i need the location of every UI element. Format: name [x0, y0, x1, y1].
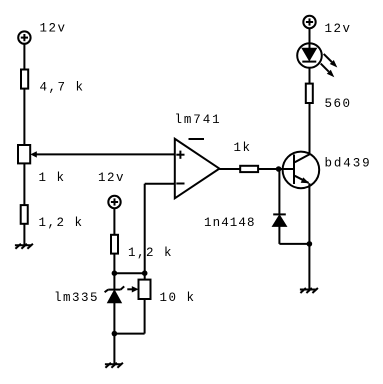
wire bottom junction horizontal	[114, 333, 144, 335]
svg-text:4,7 k: 4,7 k	[40, 81, 85, 95]
svg-text:bd439: bd439	[325, 157, 372, 171]
svg-text:10 k: 10 k	[160, 291, 196, 305]
svg-text:12v: 12v	[40, 22, 67, 36]
wire P2 bottom to junction	[144, 299, 146, 334]
wire zener to bottom junction	[113, 303, 115, 365]
svg-text:1k: 1k	[234, 141, 252, 155]
wire R1 to potentiometer P1	[23, 89, 25, 146]
resistor R1 4,7k	[21, 70, 28, 89]
wire - input down to junction	[144, 184, 146, 280]
resistor R3 1,2k (middle)	[111, 235, 118, 254]
wire R4 to transistor base	[258, 168, 294, 170]
resistor R2 1,2k	[21, 205, 28, 224]
wire wiper to op-amp + input	[36, 153, 175, 155]
LED arrow 2	[321, 64, 335, 78]
svg-text:1,2 k: 1,2 k	[39, 216, 84, 230]
wire P1 to R2	[23, 163, 25, 205]
supply +12v V3 (middle)	[108, 196, 120, 208]
wire R2 to ground	[23, 224, 25, 245]
node dot (emitter junction)	[307, 241, 313, 247]
supply +12v V2 (top right)	[303, 16, 315, 28]
wire V1 to R1	[23, 44, 25, 71]
op-amp U1 lm741	[175, 139, 220, 199]
svg-text:1,2 k: 1,2 k	[128, 246, 173, 260]
wire base node down to diode	[278, 169, 280, 214]
wire collector up to R5	[309, 104, 311, 155]
op-amp minus bar above	[189, 138, 205, 140]
wire diode down	[278, 226, 280, 244]
potentiometer P1 wiper arrow	[30, 151, 37, 157]
potentiometer P2 10k body	[139, 280, 151, 299]
LED arrow 1	[324, 54, 338, 68]
wire V2 to LED	[309, 28, 311, 48]
op-amp + input symbol	[176, 151, 184, 159]
junction wire to pot P2	[114, 272, 144, 274]
wire R5 to LED	[309, 62, 311, 84]
resistor R5 560	[306, 84, 313, 103]
wire emitter down to ground	[308, 183, 310, 289]
wire V3 to R3	[113, 208, 115, 235]
svg-text:lm335: lm335	[54, 291, 99, 305]
svg-text:560: 560	[325, 97, 352, 111]
wire op-amp - input	[145, 183, 175, 185]
svg-text:12v: 12v	[325, 22, 352, 36]
node dot (R3-branch junction)	[112, 270, 118, 276]
ground (right)	[300, 288, 318, 293]
resistor R4 1k	[240, 166, 258, 172]
svg-text:lm741: lm741	[175, 113, 222, 127]
wire R3 to zener lm335	[113, 254, 115, 290]
wire op-amp output to R4	[219, 168, 240, 170]
LED D1	[297, 43, 322, 68]
transistor Q1 bd439	[282, 152, 319, 189]
node dot (bottom junction)	[112, 331, 118, 337]
op-amp - input symbol	[176, 183, 184, 185]
svg-text:12v: 12v	[98, 171, 125, 185]
potentiometer P1 1k body	[18, 145, 30, 163]
supply +12v V1 (top left)	[18, 31, 30, 43]
node dot (pot P2 top junction)	[142, 270, 148, 276]
potentiometer P2 wiper arrow	[127, 286, 138, 292]
zener diode lm335	[105, 286, 125, 302]
svg-text:1 k: 1 k	[39, 171, 66, 185]
node dot (base node)	[276, 166, 282, 172]
ground (middle)	[105, 363, 123, 368]
diode D2 1n4148	[273, 214, 286, 226]
wire diode to emitter junction	[279, 243, 309, 245]
ground (left)	[15, 244, 33, 249]
svg-text:1n4148: 1n4148	[204, 216, 256, 230]
